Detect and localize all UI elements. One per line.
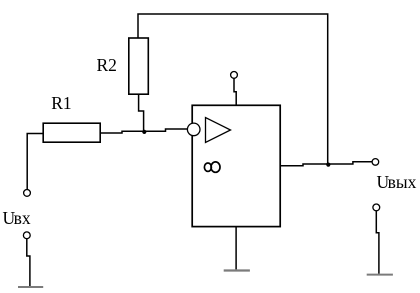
- wire: top supply terminal to op-amp: [234, 78, 236, 105]
- wire: R2 bottom to junction on input node: [139, 94, 144, 132]
- ground (op-amp common): [224, 269, 250, 271]
- wire: output terminal down to ground: [376, 211, 379, 274]
- wire: input terminal down to ground: [27, 239, 30, 287]
- svg-text:R2: R2: [97, 55, 117, 75]
- resistor R1: [43, 123, 100, 142]
- svg-text:Uвых: Uвых: [377, 172, 417, 192]
- wire: R1 left to input terminal: [27, 134, 43, 190]
- ground (input side): [18, 286, 43, 288]
- svg-text:Uвх: Uвх: [3, 208, 31, 228]
- op-amp inverting input bubble: [187, 123, 200, 136]
- node junction dot (output/feedback): [326, 163, 330, 167]
- ground (output side): [367, 274, 393, 276]
- wire: op-amp common pin down to ground: [235, 227, 237, 270]
- node junction dot (R1/R2/op-amp input): [142, 130, 146, 134]
- node: output terminal (open circle): [372, 159, 379, 166]
- node: top supply terminal (open circle): [231, 72, 238, 79]
- op-amp U1 body: [192, 105, 280, 226]
- op-amp infinity gain symbol: [204, 162, 220, 172]
- wire: op-amp output to output terminal: [280, 162, 372, 166]
- node: input ground-side terminal (open circle): [23, 232, 30, 239]
- node: output ground-side terminal (open circle): [373, 204, 380, 211]
- node: input terminal (open circle): [24, 190, 31, 197]
- op-amp triangle symbol: [206, 118, 231, 143]
- resistor R2: [129, 38, 149, 94]
- svg-text:R1: R1: [51, 93, 71, 113]
- wire: feedback loop from R2 top across the top and down to output node: [138, 14, 328, 164]
- wire: R1 output to op-amp inverting input (node with jogs): [100, 129, 188, 133]
